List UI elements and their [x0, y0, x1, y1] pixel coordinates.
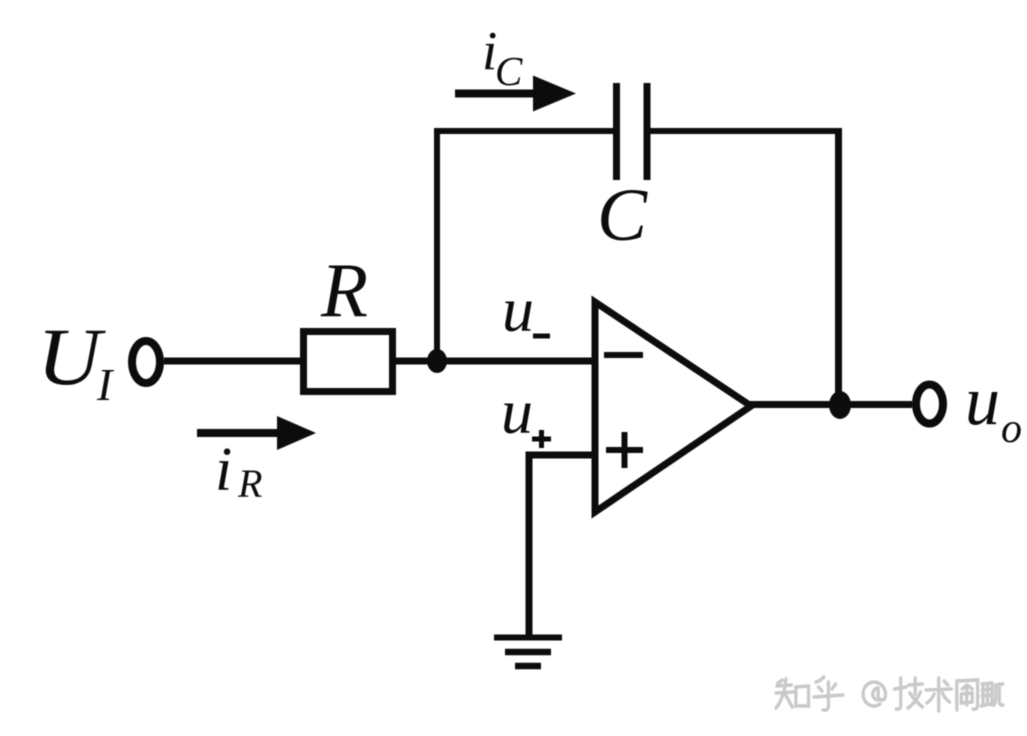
arrow i_C: [455, 76, 576, 112]
label U_I: [37, 311, 115, 410]
svg-text:u: u: [501, 376, 533, 447]
ground symbol: [494, 638, 562, 667]
wire: top rail to capacitor left plate: [434, 128, 613, 134]
op-amp U1 triangle: [595, 302, 751, 512]
wire: resistor to op-amp inverting input: [392, 358, 595, 365]
svg-text:R: R: [320, 247, 368, 333]
wire: feedback vertical right (top rail down to output node): [835, 128, 842, 404]
node: output junction: [829, 391, 851, 419]
op-amp minus sign (inverting input): [604, 352, 643, 358]
svg-text:o: o: [1001, 406, 1022, 452]
xian: [957, 680, 978, 710]
at: [863, 682, 885, 706]
hu: [814, 677, 843, 710]
zhi: [776, 679, 809, 708]
resistor R: [304, 332, 393, 392]
svg-text:U: U: [37, 311, 106, 402]
svg-text:u: u: [965, 363, 1000, 440]
svg-text:C: C: [597, 174, 648, 257]
capacitor C right plate: [644, 83, 651, 180]
wire: op-amp output to output terminal: [748, 401, 912, 408]
label u_plus: [501, 376, 551, 448]
shu: [926, 678, 951, 711]
label u_o: [965, 363, 1022, 452]
svg-text:R: R: [237, 461, 262, 506]
input terminal circle: [132, 341, 160, 383]
label i_C: [482, 20, 523, 94]
svg-text:I: I: [96, 359, 115, 410]
wire: input terminal to resistor R: [164, 358, 302, 365]
liao: [981, 683, 1003, 706]
wire: feedback vertical left (node up to top rail): [434, 131, 440, 361]
label u_minus: [502, 274, 550, 345]
label i_R: [215, 436, 262, 506]
svg-text:u: u: [502, 274, 534, 345]
ji: [894, 678, 922, 709]
wire: capacitor right plate to top-right corner: [650, 128, 842, 134]
wire: non-inverting input to ground: [529, 455, 595, 637]
watermark: zhihu @jishuxianliao: [776, 677, 1003, 711]
op-amp plus sign (non-inverting input): [606, 432, 643, 468]
svg-text:i: i: [215, 436, 232, 504]
capacitor C left plate: [613, 83, 620, 180]
output terminal circle: [916, 385, 943, 424]
svg-text:C: C: [495, 48, 523, 94]
node: inverting input junction: [427, 349, 447, 373]
arrow i_R: [197, 416, 316, 450]
